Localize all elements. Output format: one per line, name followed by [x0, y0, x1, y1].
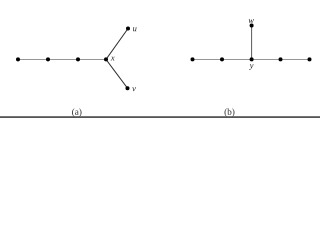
node y — [250, 57, 254, 61]
node 1 (b) — [191, 57, 195, 61]
label x — [111, 57, 115, 61]
label w — [249, 19, 254, 23]
node x — [104, 57, 108, 61]
label v — [132, 87, 136, 91]
caption (b) — [225, 108, 235, 116]
label u — [133, 27, 137, 31]
node 4 (b) — [279, 57, 283, 61]
node 1 (a) — [16, 57, 20, 61]
node u — [126, 27, 130, 31]
bottom rule — [0, 116, 320, 118]
node 2 (b) — [220, 57, 224, 61]
node 5 (b) — [308, 57, 312, 61]
wire: edge x to u — [106, 29, 128, 60]
label y — [249, 64, 253, 70]
wire: vertical edge y to w — [251, 26, 253, 60]
node 2 (a) — [46, 57, 50, 61]
wire: horizontal path edge (a) — [18, 59, 106, 61]
wire: horizontal path edge (b) — [193, 59, 310, 61]
caption (a) — [72, 108, 81, 116]
node v — [126, 86, 130, 90]
node 3 (a) — [76, 57, 80, 61]
node w — [250, 24, 254, 28]
wire: edge x to v — [106, 59, 128, 88]
